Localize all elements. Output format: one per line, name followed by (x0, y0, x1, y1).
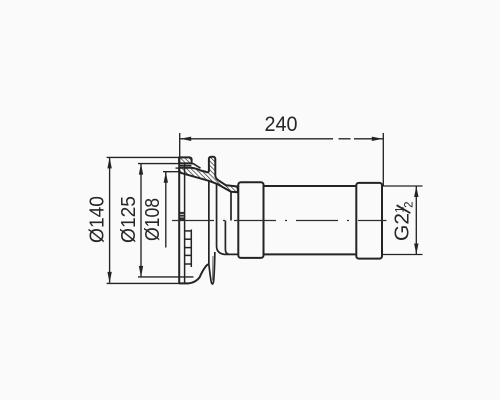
socket outer silhouette (bottom half) (225, 221, 228, 255)
dimension 240 right extension line (382, 133, 384, 186)
flange rim cross-section (hatched) (179, 157, 191, 163)
Ø125 bottom arrow (139, 266, 143, 277)
drip spike outline (209, 252, 215, 284)
Ø140 top extension line (107, 156, 180, 158)
svg-text:2: 2 (403, 201, 415, 207)
svg-text:Ø140: Ø140 (87, 196, 109, 243)
pipe top edge (264, 185, 357, 187)
thread profile right edge (190, 230, 192, 268)
svg-text:Ø125: Ø125 (118, 196, 140, 243)
socket bore edge (top half, section) (230, 192, 232, 221)
G2 1/2 bottom arrow (414, 244, 418, 255)
left collar (238, 182, 263, 258)
Ø140 top arrow (107, 157, 111, 168)
Ø125 top extension line (138, 163, 194, 165)
G2 1/2 bottom extension line (382, 254, 423, 256)
flange left inner edge (184, 163, 186, 283)
funnel neck lower silhouette left (208, 181, 210, 264)
dimension 240 left extension line (179, 133, 181, 158)
G2 1/2 top extension line (382, 185, 423, 187)
Ø125 top arrow (139, 164, 143, 175)
Ø140 bottom extension line (107, 282, 188, 284)
svg-text:Ø108: Ø108 (142, 198, 164, 241)
flange step line (176, 167, 182, 169)
dimension Ø140 line (109, 157, 111, 283)
dimension 240 right arrow (372, 137, 383, 141)
seal ring section block (179, 212, 184, 220)
dimension Ø108 line (165, 172, 167, 248)
dimension 240 line (180, 138, 333, 140)
svg-text:240: 240 (265, 113, 298, 136)
funnel neck lower silhouette right joining pipe bottom (217, 184, 238, 255)
right collar (356, 183, 382, 259)
G2 1/2 top arrow (414, 186, 418, 197)
dimension G2 1/2 text (391, 201, 416, 241)
funnel cone cross-section band with rib (hatched) (179, 157, 238, 192)
dimension Ø125 line (140, 164, 142, 277)
flange bottom profile curve (179, 264, 209, 283)
dimension G2 1/2 line (415, 186, 417, 255)
drip spike inner wall line (212, 256, 214, 281)
dimension 240 left arrow (180, 137, 191, 141)
flange left outer edge (178, 157, 180, 283)
svg-text:G2: G2 (391, 213, 414, 241)
center line (172, 220, 387, 222)
funnel outer slope start ledge (192, 163, 201, 168)
Ø108 top arrow (164, 172, 168, 183)
Ø140 bottom arrow (107, 272, 111, 283)
Ø125 bottom extension line (138, 276, 194, 278)
pipe bottom edge (264, 253, 357, 255)
thread teeth (185, 230, 192, 232)
Ø108 top extension line (163, 171, 179, 173)
rim lip line (179, 165, 191, 167)
